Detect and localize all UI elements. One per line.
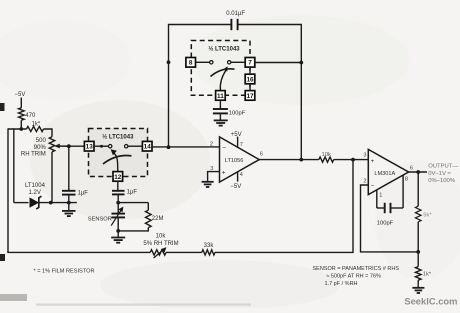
resistor 33k — [202, 250, 215, 255]
wire LM301A output — [409, 171, 427, 173]
svg-text:≈ 500pF AT RH = 76%: ≈ 500pF AT RH = 76% — [326, 274, 381, 280]
svg-text:8: 8 — [189, 60, 193, 67]
pin 11 box — [216, 91, 226, 101]
svg-text:470: 470 — [25, 113, 36, 119]
svg-text:8: 8 — [405, 177, 408, 183]
svg-text:100pF: 100pF — [229, 111, 246, 117]
svg-text:6: 6 — [260, 152, 263, 158]
wire output to 9k — [417, 172, 419, 206]
wire pin14 to LT1056 inverting input — [152, 146, 220, 148]
wire rail A to LM301A pin3 riser — [215, 160, 353, 253]
junction wiper/1uF — [67, 144, 71, 148]
pin 16-17 link — [249, 84, 251, 91]
wire pin13 to switch contact — [94, 145, 109, 147]
potentiometer 10k 5% RH TRIM — [150, 250, 166, 255]
wire bottom rail A left corner — [8, 251, 150, 252]
LT1056 V- stub pin 4 — [237, 172, 239, 182]
wire node A horizontal — [8, 128, 27, 130]
wire 9k to rail B junction — [417, 222, 419, 252]
wire wiper to pin 13 — [58, 145, 85, 147]
junction sensor top node — [116, 201, 120, 205]
svg-text:90%: 90% — [34, 145, 47, 151]
sensor variable capacitor — [117, 203, 119, 214]
svg-text:13: 13 — [86, 144, 94, 151]
LT1056 noninverting input wire — [208, 172, 220, 182]
svg-text:0%–100%: 0%–100% — [428, 178, 456, 184]
svg-text:14: 14 — [144, 144, 152, 151]
svg-text:−5V: −5V — [15, 92, 26, 98]
svg-text:1μF: 1μF — [78, 190, 89, 196]
svg-text:100pF: 100pF — [377, 220, 394, 226]
svg-text:+5V: +5V — [231, 132, 242, 138]
wire junction to 1k — [417, 252, 419, 267]
junction output/9k — [416, 170, 420, 174]
svg-text:½ LTC1043: ½ LTC1043 — [208, 45, 240, 52]
pin 12 box — [113, 172, 123, 182]
pin 16 box — [245, 74, 255, 84]
resistor 470 — [19, 108, 25, 120]
junction cap-ground node — [67, 201, 71, 205]
ground below reference node — [68, 203, 70, 211]
junction pot-bottom / reference — [49, 201, 53, 205]
wire circle to pin7 — [231, 61, 245, 63]
switch arm arc upper — [211, 69, 235, 77]
svg-text:5% RH TRIM: 5% RH TRIM — [143, 241, 178, 247]
junction bus/pin8 — [167, 60, 171, 64]
switch arm arc lower — [103, 155, 132, 164]
capacitor 100pF compensation — [377, 207, 384, 209]
wire 10k to LM301A pin3 — [334, 159, 369, 161]
capacitor 1uF (sensor coupling) — [117, 181, 119, 190]
svg-text:7: 7 — [248, 60, 252, 67]
IC 1/2 LTC1043 lower dashed box — [89, 129, 148, 177]
wire 1k to pot top corner — [44, 129, 53, 137]
switch arm lower (from pin 12) — [114, 153, 118, 172]
svg-text:9k*: 9k* — [423, 212, 432, 218]
svg-text:+: + — [222, 170, 226, 177]
svg-text:6: 6 — [410, 165, 413, 171]
svg-text:−: − — [371, 183, 375, 189]
pin 8 stub and label — [402, 175, 404, 208]
wire 22M loop right upper — [147, 203, 149, 211]
resistor 1k* — [415, 267, 421, 281]
svg-text:SENSOR = PANAMETRICS # RHS: SENSOR = PANAMETRICS # RHS — [313, 266, 400, 272]
junction riser/pin7 wire — [299, 61, 303, 65]
svg-text:12: 12 — [114, 174, 122, 181]
pin 14 box — [142, 141, 152, 151]
svg-text:10k: 10k — [322, 152, 331, 158]
svg-text:* = 1% FILM RESISTOR: * = 1% FILM RESISTOR — [34, 268, 95, 274]
svg-text:0V–1V ≈: 0V–1V ≈ — [428, 171, 451, 177]
svg-text:22M: 22M — [152, 216, 164, 222]
svg-text:1k*: 1k* — [423, 271, 432, 277]
pin 13 box — [84, 141, 94, 151]
wire pin7 to riser — [255, 62, 301, 64]
svg-text:−5V: −5V — [230, 184, 241, 190]
wire 0.01uF right to riser — [238, 25, 302, 160]
svg-text:RH TRIM: RH TRIM — [21, 151, 46, 157]
potentiometer 500 50% RH TRIM body — [49, 137, 54, 152]
pin 8 box — [186, 58, 196, 68]
ground at LT1056 +input — [202, 182, 214, 187]
wire node A second vertical to LT1004 — [13, 128, 15, 202]
svg-text:33k: 33k — [204, 243, 215, 249]
wire 470 to node A — [20, 120, 22, 129]
wire node A left rail down to bottom rail A — [7, 128, 9, 251]
svg-text:SeekIC.com: SeekIC.com — [404, 296, 457, 307]
switch contact circles lower — [109, 145, 112, 148]
resistor 10k — [319, 157, 334, 162]
wire circle to pin14 — [128, 145, 142, 147]
pin 7 box — [245, 58, 255, 68]
svg-text:LT1004: LT1004 — [25, 183, 46, 189]
wire top feedback rail — [169, 25, 231, 148]
svg-text:2: 2 — [210, 141, 213, 147]
wire LT1004 anode corner — [14, 202, 29, 204]
svg-text:1.2V: 1.2V — [29, 190, 41, 196]
resistor 22M — [146, 210, 152, 227]
svg-text:2: 2 — [363, 178, 366, 184]
junction riser/LT1056 output — [299, 158, 303, 162]
svg-text:10k: 10k — [156, 234, 167, 240]
switch arm upper (from pin 11) — [220, 71, 226, 91]
svg-text:½ LTC1043: ½ LTC1043 — [102, 134, 134, 141]
pot wiper arrow — [58, 145, 69, 147]
junction inside lower box — [100, 145, 103, 148]
LT1056 V+ stub pin 7 — [237, 137, 239, 148]
svg-text:SENSOR: SENSOR — [88, 216, 112, 222]
svg-text:16: 16 — [246, 76, 254, 83]
pin 1 stub and label — [376, 190, 378, 208]
wire rail A mid — [166, 251, 202, 253]
junction bus/pin14 wire — [167, 145, 171, 149]
LM301A inverting input wire — [361, 185, 419, 252]
svg-text:1: 1 — [379, 192, 382, 198]
op-amp LT1056 triangle — [220, 137, 260, 182]
wire pin8 to contact — [196, 61, 210, 63]
resistor 9k* — [415, 206, 421, 222]
pin 17 box — [245, 91, 255, 101]
node A junction — [19, 127, 23, 131]
junction 10k/pin3/railA — [351, 158, 355, 162]
svg-text:LM301A: LM301A — [374, 171, 395, 177]
wire -5V stub — [20, 98, 22, 108]
svg-text:500: 500 — [36, 138, 47, 144]
wire 1k to ground — [417, 280, 419, 287]
svg-text:0.01μF: 0.01μF — [226, 11, 245, 17]
svg-text:17: 17 — [246, 93, 254, 100]
svg-text:OUTPUT—: OUTPUT— — [428, 163, 458, 169]
capacitor 0.01uF feedback — [231, 19, 237, 30]
svg-text:11: 11 — [217, 93, 224, 100]
svg-text:LT1056: LT1056 — [225, 158, 244, 164]
svg-text:−: − — [222, 144, 226, 151]
ground below 100pF — [214, 120, 228, 125]
wire pot bottom to reference line — [51, 152, 53, 203]
svg-text:1μF: 1μF — [127, 190, 138, 196]
ground below 1k — [412, 288, 424, 293]
IC 1/2 LTC1043 upper dashed box — [191, 41, 250, 96]
diode LT1004 1.2V reference — [30, 197, 40, 207]
svg-text:1.7 pF / %RH: 1.7 pF / %RH — [325, 281, 358, 287]
ground below sensor — [117, 231, 119, 237]
wire LT1056 output to 10k — [259, 159, 319, 161]
wire LT1004 cathode line — [39, 202, 77, 204]
svg-text:4: 4 — [240, 172, 243, 178]
capacitor 1uF (reference bypass) — [68, 146, 70, 190]
pin 7-16 link — [249, 67, 251, 74]
svg-text:7: 7 — [240, 142, 243, 148]
junction railB/divider — [416, 250, 420, 254]
svg-text:3: 3 — [363, 153, 366, 159]
resistor 1k* (horizontal) — [27, 126, 44, 131]
wire 22M loop bottom — [118, 228, 148, 231]
op-amp LM301A triangle — [368, 149, 408, 194]
junction sensor bottom node — [116, 229, 120, 233]
switch contact circles upper — [210, 61, 213, 64]
wire 22M loop top — [118, 202, 148, 204]
svg-text:+: + — [371, 159, 375, 165]
capacitor 100pF below pin 11 — [219, 100, 221, 108]
